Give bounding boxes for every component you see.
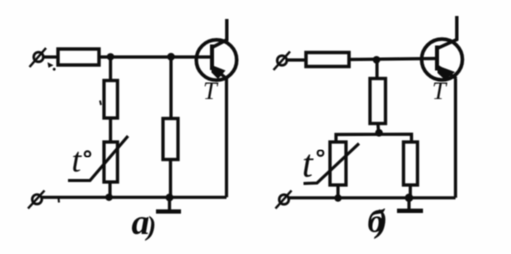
svg-text:): )	[374, 204, 388, 240]
svg-text:T: T	[432, 78, 448, 105]
svg-text:t: t	[302, 143, 314, 186]
svg-text:t: t	[72, 141, 83, 180]
svg-text:T: T	[203, 78, 219, 105]
